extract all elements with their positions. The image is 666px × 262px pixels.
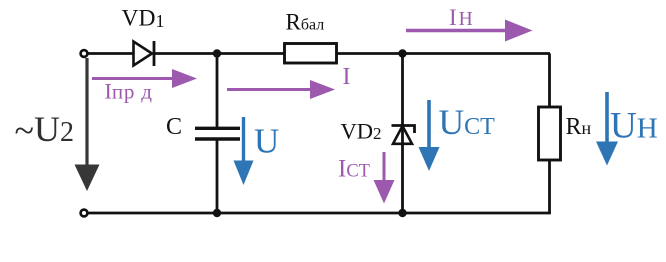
arrow I (purple, right) bbox=[227, 80, 335, 99]
resistor Rn (load) bbox=[539, 107, 561, 160]
arrow Ipr.d (purple, right) bbox=[92, 69, 197, 88]
terminal input top bbox=[81, 50, 88, 57]
wire top rail: VD1 cathode to Rbal bbox=[154, 52, 284, 55]
node junction top of C bbox=[213, 49, 221, 57]
capacitor C bbox=[195, 128, 240, 139]
arrow Ist (purple, down) bbox=[374, 152, 395, 204]
wire capacitor branch lower bbox=[216, 139, 219, 213]
wire top rail: Rbal to right corner bbox=[337, 52, 550, 55]
resistor Rbal bbox=[285, 44, 337, 64]
node junction top of VD2 bbox=[398, 49, 406, 57]
arrow Ust (blue, down) bbox=[419, 100, 440, 171]
node junction bottom of VD2 bbox=[398, 209, 406, 217]
diode VD1 bbox=[134, 41, 155, 66]
svg-text:UН: UН bbox=[610, 106, 658, 147]
wire top rail: terminal to VD1 anode bbox=[87, 52, 133, 55]
arrow U (blue, down) bbox=[234, 117, 254, 185]
arrow In (purple, right) bbox=[406, 20, 533, 42]
svg-text:C: C bbox=[166, 114, 182, 140]
svg-text:Rн: Rн bbox=[566, 114, 592, 140]
zener diode VD2 bbox=[392, 126, 415, 144]
wire zener branch bbox=[401, 54, 404, 214]
svg-text:Iпр д: Iпр д bbox=[105, 78, 153, 103]
wire right vertical lower bbox=[548, 160, 551, 213]
wire right vertical upper bbox=[548, 54, 551, 108]
svg-text:I: I bbox=[343, 64, 351, 90]
svg-text:IН: IН bbox=[449, 5, 473, 30]
terminal input bottom bbox=[81, 210, 88, 217]
arrow Un (blue, down) bbox=[596, 92, 618, 166]
arrow ~U2 down (black) bbox=[75, 58, 100, 191]
svg-text:U: U bbox=[254, 122, 279, 161]
wire capacitor branch upper bbox=[216, 54, 219, 129]
wire bottom rail bbox=[87, 212, 551, 215]
node junction bottom of C bbox=[213, 209, 221, 217]
